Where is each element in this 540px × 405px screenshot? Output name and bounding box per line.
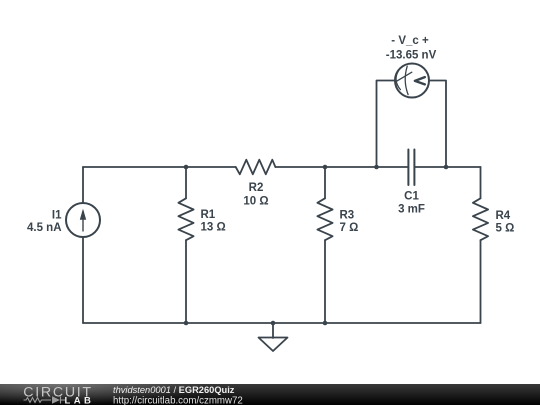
wire R4 top [480, 167, 482, 198]
svg-text:10 Ω: 10 Ω [243, 196, 268, 208]
svg-text:R1: R1 [201, 209, 216, 221]
svg-text:LAB: LAB [65, 396, 93, 405]
node ground [271, 321, 276, 326]
svg-text:13 Ω: 13 Ω [201, 222, 226, 234]
wire I1 top [82, 167, 84, 203]
wire voltmeter left [377, 81, 396, 168]
node R1 top [184, 165, 189, 170]
svg-text:C1: C1 [404, 191, 419, 203]
wire top left to R2 [83, 166, 236, 168]
svg-text:http://circuitlab.com/czmmw72: http://circuitlab.com/czmmw72 [113, 396, 243, 405]
wire R3 top [324, 167, 326, 198]
node C1 right [444, 165, 449, 170]
CircuitLab logo [23, 384, 92, 405]
svg-text:3 mF: 3 mF [398, 204, 425, 216]
resistor R2 [236, 160, 276, 175]
wire R1 bottom [185, 240, 187, 323]
resistor R3 [317, 198, 332, 240]
current source I1 [66, 203, 100, 237]
svg-text:R2: R2 [249, 182, 264, 194]
footer text [113, 385, 243, 405]
node C1 left [374, 165, 379, 170]
junction dots [184, 165, 449, 326]
footer bar [0, 384, 540, 405]
wire bottom [83, 322, 481, 324]
wire R1 top [185, 167, 187, 198]
svg-text:-13.65 nV: -13.65 nV [386, 50, 437, 62]
svg-text:7 Ω: 7 Ω [340, 222, 359, 234]
svg-text:I1: I1 [52, 210, 62, 222]
svg-text:5 Ω: 5 Ω [496, 223, 515, 235]
wire R3 bottom [324, 240, 326, 323]
capacitor C1 [408, 150, 414, 186]
node R3 top [323, 165, 328, 170]
wire I1 bottom [82, 237, 84, 323]
svg-text:R4: R4 [496, 210, 511, 222]
svg-text:thvidsten0001 / EGR260Quiz: thvidsten0001 / EGR260Quiz [113, 385, 235, 395]
ground [272, 323, 274, 338]
voltmeter U1 [395, 64, 429, 98]
resistor R4 [473, 198, 488, 240]
svg-text:- V_c +: - V_c + [391, 35, 429, 47]
svg-text:R3: R3 [340, 210, 355, 222]
wire voltmeter right [429, 81, 446, 168]
node R3 bottom [323, 321, 328, 326]
wire C1 right plate to top-right corner [414, 166, 480, 168]
node R1 bottom [184, 321, 189, 326]
resistor R1 [178, 198, 193, 240]
wire R2 to C1 left plate [275, 166, 408, 168]
svg-text:4.5 nA: 4.5 nA [27, 222, 62, 234]
I1 arrow [80, 209, 86, 232]
wire R4 bottom [480, 240, 482, 323]
